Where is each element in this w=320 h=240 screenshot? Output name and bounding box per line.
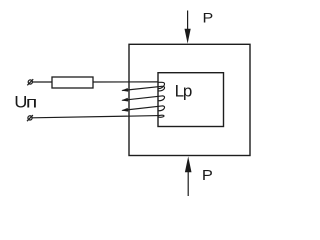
winding turn 4: front strand rising across limb into loop bbox=[121, 106, 164, 112]
terminal X2 (bottom input clamp) bbox=[27, 115, 33, 121]
wire: resistor to winding (enters core) bbox=[93, 81, 158, 83]
winding turn 2: front strand rising across limb into loop bbox=[121, 86, 164, 91]
force arrow P (top) bbox=[185, 11, 191, 44]
winding end curl at bottom wire bbox=[158, 115, 164, 117]
terminal X1 (top input clamp) bbox=[27, 79, 33, 85]
magnetic core (outer box) bbox=[129, 44, 250, 155]
resistor R bbox=[52, 77, 93, 88]
winding turn 3: front strand rising across limb into loop bbox=[121, 96, 164, 102]
svg-text:Lp: Lp bbox=[175, 82, 192, 101]
core window with winding Lp (inner box) bbox=[158, 73, 224, 127]
force arrow P (bottom) bbox=[185, 156, 192, 196]
wire: bottom terminal to winding (enters core) bbox=[32, 116, 158, 118]
svg-text:P: P bbox=[203, 10, 214, 26]
wire: top terminal to resistor bbox=[33, 81, 52, 83]
winding turn 1: feed wire crosses limb, teardrop loop bbox=[158, 82, 164, 88]
svg-text:п: п bbox=[26, 93, 37, 111]
svg-text:P: P bbox=[202, 168, 213, 184]
